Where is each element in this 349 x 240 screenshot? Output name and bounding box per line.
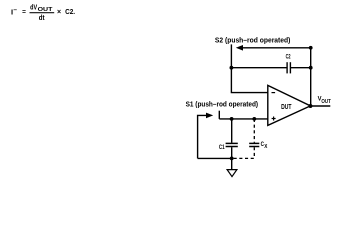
node S2-C2 junction xyxy=(230,66,234,70)
node Cx junction xyxy=(252,117,256,121)
op-amp U1 DUT xyxy=(268,85,311,125)
svg-text:S1 (push–rod operated): S1 (push–rod operated) xyxy=(186,101,259,108)
svg-text:OUT: OUT xyxy=(321,99,330,105)
node output junction xyxy=(308,104,312,108)
svg-text:×: × xyxy=(57,9,61,16)
node Vout label xyxy=(318,96,331,106)
wire noninverting input xyxy=(219,118,267,120)
svg-text:C1: C1 xyxy=(219,144,225,151)
svg-text:DUT: DUT xyxy=(281,104,292,111)
svg-text:S2 (push–rod operated): S2 (push–rod operated) xyxy=(215,37,291,44)
wire bottom return xyxy=(198,157,232,159)
wire right vertical xyxy=(310,48,312,106)
svg-text:dV: dV xyxy=(30,2,37,11)
switch S1 contact xyxy=(218,111,220,119)
node ground junction xyxy=(230,157,234,161)
capacitor Cx (dashed) xyxy=(249,119,268,158)
svg-text:=: = xyxy=(22,7,26,16)
node C1 junction xyxy=(230,117,234,121)
ground xyxy=(227,158,237,176)
wire Cx bottom (dashed) xyxy=(234,157,255,159)
wire C2 feedback xyxy=(231,67,310,69)
wire inverting input xyxy=(231,68,267,93)
equation I- = dVout/dt x C2 xyxy=(11,2,75,22)
svg-text:C2: C2 xyxy=(286,53,291,60)
node C2-output junction xyxy=(309,66,313,70)
wire output xyxy=(310,105,330,107)
svg-text:C2.: C2. xyxy=(65,7,75,16)
switch S1 arrow xyxy=(198,113,214,159)
svg-text:X: X xyxy=(264,144,268,150)
node top-right junction xyxy=(309,46,313,50)
switch S2 contact xyxy=(230,44,232,67)
svg-text:OUT: OUT xyxy=(38,7,54,13)
capacitor C1 xyxy=(219,119,238,158)
capacitor C2 xyxy=(286,53,291,73)
svg-text:–: – xyxy=(13,7,17,14)
switch S2 arrow xyxy=(236,45,311,51)
svg-text:dt: dt xyxy=(39,13,45,22)
